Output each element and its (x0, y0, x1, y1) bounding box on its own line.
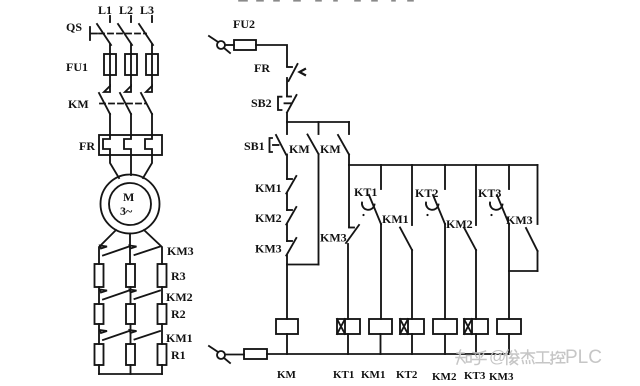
wire FR to motor 2 (130, 155, 132, 175)
svg-text:L2: L2 (119, 3, 133, 17)
svg-text:KM: KM (68, 97, 89, 111)
wire QS to FU1 phase1 (109, 44, 111, 54)
wire to KM3 NC (286, 225, 288, 242)
wire rotor left (99, 230, 116, 264)
resistor R2 col2 (126, 304, 135, 324)
svg-text:KM3: KM3 (167, 244, 194, 258)
svg-text:KM3: KM3 (320, 231, 347, 245)
resistor R3 col1 (95, 264, 104, 287)
wire KT3 contact through node C (508, 224, 510, 319)
wire FR to motor 3 (143, 155, 152, 178)
wire KM3 coil to rail (508, 334, 510, 354)
wire branch KT1coil from rail (348, 165, 350, 227)
switch QS handle (90, 27, 97, 40)
resistor R2 col1 (95, 304, 104, 324)
svg-text:3~: 3~ (120, 204, 133, 218)
wire KM to FR phase1 (109, 114, 111, 135)
svg-text:KM3: KM3 (255, 242, 282, 256)
contact KM1 NO (400, 165, 412, 250)
timer contact KT3 (490, 165, 509, 224)
wire to KT1 coil (347, 244, 349, 319)
contactor KM1 blade a (103, 331, 129, 340)
wire KT2 contact to KM2 coil (444, 224, 446, 319)
resistor R1 col2 (126, 344, 135, 365)
svg-text:PLC: PLC (565, 347, 602, 368)
fuse FU1 pole2 (125, 54, 137, 75)
motor M outer circle (101, 175, 160, 234)
contactor KM3 blade b (135, 247, 161, 256)
wire KM3 self-hold down (537, 251, 539, 271)
wire SB1 to KM1 NC (286, 155, 288, 180)
svg-text:FR: FR (254, 61, 270, 75)
terminal bottom left (209, 346, 230, 363)
wire rotor mid (129, 234, 131, 265)
wire FU1 inner2 (130, 54, 132, 75)
resistor R3 col2 (126, 264, 135, 287)
wire to KM2 NC (286, 194, 288, 211)
pushbutton SB1 NO (270, 122, 288, 155)
wire FU1 to KM phase2 (130, 75, 132, 86)
wire L2 drop (130, 16, 132, 22)
wire FU1 to KM phase1 (109, 75, 111, 86)
svg-text:KM1: KM1 (166, 331, 193, 345)
coil KM3 (497, 319, 521, 334)
svg-text:KM2: KM2 (166, 290, 193, 304)
wire KM to FR phase2 (130, 114, 132, 135)
wire KM1 contact to KT2 coil (411, 250, 413, 319)
wire R2 to R1 col3 (161, 324, 163, 344)
pushbutton SB2 NC (278, 95, 297, 113)
svg-text:KM3: KM3 (489, 371, 514, 383)
terminal top left (209, 36, 230, 53)
top rail (349, 164, 538, 166)
wire FU2 to corner (256, 45, 287, 66)
svg-text:KT1: KT1 (333, 369, 354, 381)
wire KM to FR phase3 (151, 114, 153, 135)
contact KM self-hold 1 (308, 122, 319, 154)
switch QS pole 2 (118, 24, 132, 45)
svg-text:KM2: KM2 (255, 211, 282, 225)
coil KM (276, 319, 298, 334)
svg-text:KM3: KM3 (506, 213, 533, 227)
thermal relay FR box (99, 135, 162, 155)
svg-text:SB1: SB1 (244, 139, 265, 153)
contactor KM fixed contact 2 (125, 86, 131, 92)
bottom rail (267, 353, 509, 355)
wire rotor right (144, 230, 162, 264)
svg-text:KM1: KM1 (361, 369, 385, 381)
contactor KM3 fixed contact a (100, 246, 107, 249)
contactor KM2 blade a (103, 291, 129, 300)
contactor KM fixed contact 1 (104, 86, 110, 92)
contactor KM blade 3 (141, 93, 152, 114)
fuse FU2 (234, 40, 256, 50)
fuse FU1 pole1 (104, 54, 116, 75)
wire QS to FU1 phase2 (130, 44, 132, 54)
svg-text:QS: QS (66, 20, 82, 34)
svg-text:R1: R1 (171, 348, 186, 362)
switch QS linkage dashed (99, 33, 146, 35)
svg-text:KM: KM (277, 369, 297, 381)
wire KM1 coil to rail (380, 334, 382, 354)
thermal relay FR element 1 (103, 135, 110, 155)
wire KT3 coil to rail (475, 334, 477, 354)
wire FU1 inner1 (109, 54, 111, 75)
svg-text:L3: L3 (140, 3, 154, 17)
watermark zhihu (456, 350, 486, 365)
wire KT1 contact to KM1 coil (380, 224, 382, 319)
wire terminal to FU2 (225, 44, 234, 46)
contactor KM1 fixed contact b (130, 330, 137, 333)
contactor KM blade 1 (99, 93, 110, 114)
contact KM3 NO self-hold (526, 165, 538, 251)
svg-text:KM1: KM1 (255, 181, 282, 195)
resistor R2 col3 (158, 304, 167, 324)
resistor R1 col1 (95, 344, 104, 365)
wire FU1 to KM phase3 (151, 75, 153, 86)
svg-text:M: M (123, 190, 134, 204)
contact KM3 NC (286, 238, 296, 256)
contactor KM2 blade b (135, 291, 161, 300)
contact KM feeder (338, 122, 349, 155)
contact KM1 NC (286, 176, 296, 194)
wire R3 to R2 col3 (161, 287, 163, 304)
wire R2 to R1 col1 (98, 324, 100, 344)
svg-text:KT1: KT1 (354, 185, 377, 199)
wire terminal to FU2b (225, 354, 244, 356)
cropped title character bottoms (239, 0, 413, 2)
wire SB2 to node A (286, 113, 288, 122)
svg-text:L1: L1 (98, 3, 112, 17)
node B junction (287, 256, 319, 265)
contactor KM2 fixed contact b (130, 290, 137, 293)
wire FR to motor 1 (110, 155, 119, 178)
thermal contact FR NC (287, 64, 305, 81)
wire KM2 coil to rail (444, 334, 446, 354)
wire KM2 contact to KT3 coil (475, 250, 477, 319)
wire QS to FU1 phase3 (151, 44, 153, 54)
resistor R1 col3 (158, 344, 167, 365)
wire KM self-hold down (318, 154, 320, 265)
svg-text:KM: KM (289, 142, 310, 156)
wire to KM coil (286, 265, 288, 320)
wire L3 drop (151, 16, 153, 22)
svg-text:FU1: FU1 (66, 60, 88, 74)
fuse FU2 lower (244, 349, 267, 359)
contact KM2 NO (464, 165, 476, 250)
contactor KM2 fixed contact a (100, 290, 107, 293)
svg-text:R3: R3 (171, 269, 186, 283)
coil KT3 (464, 319, 488, 334)
wire node C bridge (509, 270, 538, 272)
wire KM coil to rail (286, 334, 288, 354)
wire L1 drop (109, 16, 111, 22)
contactor KM3 blade a (103, 247, 129, 256)
wire FU1 inner3 (151, 54, 153, 75)
fuse FU1 pole3 (146, 54, 158, 75)
contactor KM1 blade b (135, 331, 161, 340)
svg-text:KT2: KT2 (396, 369, 418, 381)
contactor KM fixed contact 3 (146, 86, 152, 92)
svg-text:R2: R2 (171, 307, 186, 321)
coil KM2 (433, 319, 457, 334)
coil KT1 (337, 319, 360, 334)
svg-text:KM2: KM2 (446, 217, 473, 231)
wire KT2 coil to rail (411, 334, 413, 354)
contact KM3 NC cutoff (346, 225, 359, 243)
coil KM1 (369, 319, 392, 334)
switch QS pole 1 (97, 24, 111, 45)
timer contact KT2 (426, 165, 445, 224)
node A bus (287, 121, 349, 123)
wire star bus (99, 373, 162, 375)
wire R1 bottoms to star point (99, 365, 162, 374)
thermal relay FR element 3 (145, 135, 152, 155)
svg-text:KT3: KT3 (464, 370, 486, 382)
switch QS pole 3 (139, 24, 153, 45)
wire R2 to R1 col2 (130, 324, 132, 344)
wire R3 to R2 col2 (130, 287, 132, 304)
coil KT2 (400, 319, 424, 334)
wire KT1 coil to rail (347, 334, 349, 354)
thermal relay FR element 2 (124, 135, 131, 155)
contactor KM blade 2 (120, 93, 131, 114)
contact KM2 NC (286, 207, 296, 225)
contactor KM1 fixed contact a (100, 330, 107, 333)
contactor KM linkage dashed (100, 103, 146, 105)
timer contact KT1 (362, 165, 381, 224)
resistor R3 col3 (158, 264, 167, 287)
wire FR to SB2 (286, 78, 288, 96)
svg-text:FR: FR (79, 139, 95, 153)
svg-text:FU2: FU2 (233, 17, 255, 31)
svg-text:KM: KM (320, 142, 341, 156)
motor M inner circle (109, 183, 151, 225)
wire feeder to rail (348, 155, 350, 166)
svg-text:KM1: KM1 (382, 212, 409, 226)
svg-text:SB2: SB2 (251, 96, 272, 110)
contactor KM3 fixed contact b (130, 246, 137, 249)
wire R3 to R2 col1 (98, 287, 100, 304)
svg-text:KM2: KM2 (432, 371, 457, 383)
svg-text:@: @ (489, 347, 506, 366)
